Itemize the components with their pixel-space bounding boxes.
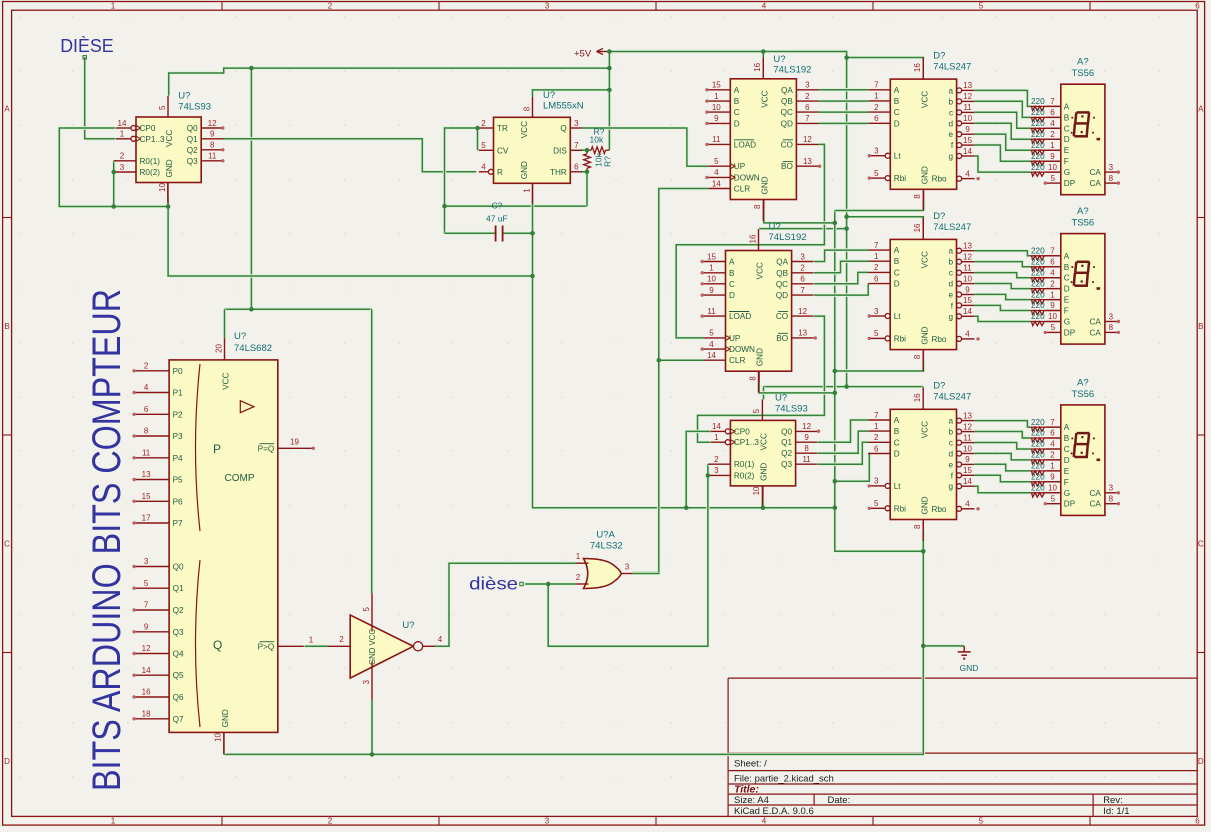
svg-text:DP: DP <box>1064 500 1076 509</box>
svg-text:220: 220 <box>1031 301 1045 310</box>
svg-text:CP0: CP0 <box>140 124 156 133</box>
svg-text:Size: A4: Size: A4 <box>734 795 769 806</box>
svg-text:8: 8 <box>913 524 922 529</box>
svg-text:GND VCC: GND VCC <box>368 629 377 665</box>
svg-text:3: 3 <box>545 1 550 10</box>
svg-text:2: 2 <box>120 152 125 161</box>
svg-text:19: 19 <box>290 437 299 446</box>
svg-text:9: 9 <box>144 622 149 631</box>
svg-text:220: 220 <box>1031 163 1045 172</box>
svg-text:220: 220 <box>1031 152 1045 161</box>
svg-text:GND: GND <box>760 463 769 481</box>
svg-text:e: e <box>949 130 954 139</box>
svg-text:6: 6 <box>800 275 805 284</box>
svg-text:7: 7 <box>874 241 879 250</box>
svg-text:11: 11 <box>707 307 716 316</box>
svg-text:14: 14 <box>707 351 716 360</box>
svg-text:GND: GND <box>960 663 979 673</box>
svg-text:5: 5 <box>752 408 761 413</box>
svg-text:Title:: Title: <box>734 783 759 795</box>
svg-text:8: 8 <box>804 444 809 453</box>
svg-text:15: 15 <box>963 296 972 305</box>
svg-text:B: B <box>1064 263 1070 272</box>
svg-text:9: 9 <box>714 114 719 123</box>
svg-text:CP1..3: CP1..3 <box>140 135 165 144</box>
svg-text:Q3: Q3 <box>173 628 184 637</box>
svg-text:C: C <box>4 540 10 549</box>
svg-text:D: D <box>1064 456 1070 465</box>
svg-text:C: C <box>1064 124 1070 133</box>
svg-text:14: 14 <box>963 147 972 156</box>
svg-text:Lt: Lt <box>894 152 902 161</box>
svg-text:3: 3 <box>120 163 125 172</box>
svg-text:10: 10 <box>214 732 223 741</box>
svg-text:4: 4 <box>1050 268 1055 277</box>
svg-text:c: c <box>949 269 953 278</box>
svg-text:R0(1): R0(1) <box>140 157 161 166</box>
svg-text:3: 3 <box>805 81 810 90</box>
svg-text:10: 10 <box>707 275 716 284</box>
svg-text:P: P <box>213 442 221 456</box>
svg-text:5: 5 <box>1051 323 1056 332</box>
svg-text:220: 220 <box>1031 141 1045 150</box>
svg-text:P6: P6 <box>173 497 183 506</box>
svg-text:VCC: VCC <box>222 373 231 390</box>
svg-text:U?: U? <box>234 331 246 342</box>
svg-text:C?: C? <box>492 201 503 211</box>
svg-text:220: 220 <box>1031 312 1045 321</box>
svg-text:QC: QC <box>781 108 793 117</box>
svg-text:5: 5 <box>1051 495 1056 504</box>
svg-text:D: D <box>894 280 900 289</box>
svg-text:c: c <box>949 439 953 448</box>
svg-text:4: 4 <box>709 340 714 349</box>
svg-text:10: 10 <box>963 274 972 283</box>
svg-text:10: 10 <box>1048 312 1057 321</box>
svg-text:18: 18 <box>142 709 151 718</box>
svg-text:2: 2 <box>328 1 333 10</box>
svg-text:Lt: Lt <box>894 312 902 321</box>
svg-text:14: 14 <box>963 477 972 486</box>
svg-text:3: 3 <box>874 147 879 156</box>
svg-text:TS56: TS56 <box>1071 68 1094 79</box>
svg-text:15: 15 <box>712 81 721 90</box>
svg-text:11: 11 <box>142 448 151 457</box>
svg-text:15: 15 <box>142 492 151 501</box>
svg-text:F: F <box>1064 157 1069 166</box>
svg-text:74LS192: 74LS192 <box>773 65 811 76</box>
svg-text:VCC: VCC <box>921 91 930 108</box>
svg-text:QA: QA <box>781 86 793 95</box>
svg-text:P=Q: P=Q <box>258 444 275 453</box>
svg-text:74LS247: 74LS247 <box>933 222 971 233</box>
svg-text:Rbo: Rbo <box>931 505 946 514</box>
svg-text:Rbo: Rbo <box>931 335 946 344</box>
svg-text:CO: CO <box>781 140 793 149</box>
svg-text:2: 2 <box>1050 279 1055 288</box>
svg-text:COMP: COMP <box>225 473 255 484</box>
svg-text:3: 3 <box>1109 312 1114 321</box>
svg-text:8: 8 <box>913 194 922 199</box>
svg-text:e: e <box>948 460 953 469</box>
svg-text:CA: CA <box>1090 489 1102 498</box>
svg-text:7: 7 <box>805 114 810 123</box>
svg-text:6: 6 <box>874 444 879 453</box>
svg-text:74LS682: 74LS682 <box>234 343 272 354</box>
svg-text:A?: A? <box>1077 377 1089 388</box>
svg-text:6: 6 <box>1050 108 1055 117</box>
svg-text:11: 11 <box>963 433 972 442</box>
svg-text:A: A <box>894 246 900 255</box>
svg-text:Q1: Q1 <box>781 438 792 447</box>
svg-text:1: 1 <box>522 188 531 193</box>
svg-text:4: 4 <box>1050 119 1055 128</box>
svg-text:D: D <box>4 757 10 766</box>
svg-text:7: 7 <box>800 286 805 295</box>
svg-text:CA: CA <box>1090 500 1102 509</box>
svg-text:20: 20 <box>214 343 223 352</box>
svg-text:E: E <box>1064 146 1070 155</box>
svg-text:1: 1 <box>714 92 719 101</box>
svg-text:220: 220 <box>1031 97 1045 106</box>
svg-text:9: 9 <box>965 125 970 134</box>
svg-text:U?A: U?A <box>596 530 615 541</box>
svg-text:9: 9 <box>1050 301 1055 310</box>
svg-text:3: 3 <box>574 119 579 128</box>
svg-text:4: 4 <box>965 330 970 339</box>
svg-text:Q7: Q7 <box>173 715 184 724</box>
svg-text:4: 4 <box>481 163 486 172</box>
svg-text:15: 15 <box>707 252 716 261</box>
svg-text:7: 7 <box>1050 418 1055 427</box>
svg-text:Q4: Q4 <box>173 650 184 659</box>
svg-text:QD: QD <box>776 291 788 300</box>
svg-text:GND: GND <box>520 161 529 179</box>
svg-text:12: 12 <box>798 307 807 316</box>
svg-text:R0(2): R0(2) <box>734 471 755 480</box>
svg-text:UP: UP <box>729 334 741 343</box>
svg-text:U?: U? <box>775 393 787 404</box>
svg-text:5: 5 <box>1051 174 1056 183</box>
svg-text:16: 16 <box>913 393 922 402</box>
svg-text:74LS192: 74LS192 <box>769 232 807 243</box>
svg-text:A: A <box>894 416 900 425</box>
svg-text:R0(1): R0(1) <box>734 460 755 469</box>
svg-text:1: 1 <box>111 816 116 825</box>
svg-text:D?: D? <box>933 51 945 62</box>
svg-text:14: 14 <box>712 422 721 431</box>
svg-text:c: c <box>949 108 953 117</box>
svg-text:QA: QA <box>776 258 788 267</box>
svg-text:1: 1 <box>874 92 879 101</box>
svg-text:CP1..3: CP1..3 <box>734 438 759 447</box>
svg-text:GND: GND <box>920 326 929 344</box>
svg-text:12: 12 <box>802 422 811 431</box>
svg-text:d: d <box>948 280 953 289</box>
svg-text:DOWN: DOWN <box>734 173 760 182</box>
svg-text:GND: GND <box>165 159 174 177</box>
svg-text:CO: CO <box>776 312 788 321</box>
svg-text:11: 11 <box>712 135 721 144</box>
svg-text:6: 6 <box>1050 257 1055 266</box>
svg-text:U?: U? <box>773 54 785 65</box>
svg-text:LOAD: LOAD <box>729 312 751 321</box>
svg-text:P2: P2 <box>173 410 183 419</box>
svg-text:CLR: CLR <box>734 185 750 194</box>
svg-text:6: 6 <box>874 274 879 283</box>
svg-text:F: F <box>1064 478 1069 487</box>
svg-text:E: E <box>1064 296 1070 305</box>
svg-text:9: 9 <box>965 285 970 294</box>
svg-text:2: 2 <box>874 433 879 442</box>
svg-text:e: e <box>948 291 953 300</box>
svg-text:d: d <box>949 119 954 128</box>
svg-text:4: 4 <box>1050 440 1055 449</box>
svg-text:F: F <box>1064 307 1069 316</box>
svg-text:12: 12 <box>963 253 972 262</box>
svg-text:12: 12 <box>208 119 217 128</box>
svg-text:8: 8 <box>1109 323 1114 332</box>
svg-text:47 uF: 47 uF <box>486 214 508 224</box>
svg-text:U?: U? <box>402 620 414 631</box>
svg-text:9: 9 <box>709 286 714 295</box>
svg-text:C: C <box>734 108 740 117</box>
svg-text:220: 220 <box>1031 119 1045 128</box>
svg-text:8: 8 <box>522 106 531 111</box>
svg-text:1: 1 <box>1050 462 1055 471</box>
svg-text:THR: THR <box>550 168 567 177</box>
svg-text:D: D <box>729 291 735 300</box>
svg-text:12: 12 <box>803 135 812 144</box>
svg-text:12: 12 <box>963 422 972 431</box>
svg-text:2: 2 <box>339 635 344 644</box>
svg-text:2: 2 <box>1050 451 1055 460</box>
svg-text:B: B <box>894 427 900 436</box>
svg-text:Rbi: Rbi <box>894 174 906 183</box>
svg-text:1: 1 <box>120 130 125 139</box>
svg-text:C: C <box>1064 274 1070 283</box>
svg-text:VCC: VCC <box>165 130 174 147</box>
svg-text:1: 1 <box>1050 141 1055 150</box>
svg-text:220: 220 <box>1031 462 1045 471</box>
svg-text:16: 16 <box>748 234 757 243</box>
svg-text:16: 16 <box>913 223 922 232</box>
svg-text:11: 11 <box>802 455 811 464</box>
svg-text:74LS247: 74LS247 <box>933 62 971 73</box>
svg-text:8: 8 <box>210 141 215 150</box>
svg-text:14: 14 <box>118 119 127 128</box>
svg-text:1: 1 <box>874 252 879 261</box>
svg-text:2: 2 <box>144 361 149 370</box>
svg-text:6: 6 <box>144 405 149 414</box>
svg-text:10k: 10k <box>590 135 604 145</box>
svg-text:B: B <box>894 97 900 106</box>
svg-text:GND: GND <box>921 166 930 184</box>
svg-text:B: B <box>1198 322 1203 331</box>
svg-text:Q3: Q3 <box>781 460 792 469</box>
svg-text:D: D <box>1198 757 1204 766</box>
svg-text:16: 16 <box>753 62 762 71</box>
svg-text:220: 220 <box>1031 257 1045 266</box>
svg-text:9: 9 <box>1050 473 1055 482</box>
svg-text:220: 220 <box>1031 473 1045 482</box>
svg-text:Id: 1/1: Id: 1/1 <box>1103 806 1129 817</box>
svg-text:220: 220 <box>1031 429 1045 438</box>
svg-text:A: A <box>1064 102 1070 111</box>
svg-text:8: 8 <box>753 204 762 209</box>
svg-text:CA: CA <box>1090 168 1102 177</box>
svg-text:DP: DP <box>1064 328 1076 337</box>
svg-text:7: 7 <box>574 141 579 150</box>
svg-text:13: 13 <box>963 242 972 251</box>
svg-text:VCC: VCC <box>761 90 770 107</box>
svg-text:220: 220 <box>1031 418 1045 427</box>
svg-text:E: E <box>1064 467 1070 476</box>
svg-text:6: 6 <box>1050 429 1055 438</box>
svg-text:+5V: +5V <box>574 48 592 59</box>
svg-text:GND: GND <box>761 176 770 194</box>
svg-text:TR: TR <box>497 124 508 133</box>
svg-text:1: 1 <box>1050 290 1055 299</box>
svg-text:10: 10 <box>752 486 761 495</box>
svg-text:P7: P7 <box>173 519 183 528</box>
svg-text:CA: CA <box>1090 179 1102 188</box>
svg-text:11: 11 <box>963 103 972 112</box>
svg-text:Q5: Q5 <box>173 671 184 680</box>
svg-text:R?: R? <box>603 156 613 167</box>
svg-text:1: 1 <box>111 1 116 10</box>
svg-text:C: C <box>1198 540 1204 549</box>
svg-text:6: 6 <box>1195 1 1200 10</box>
svg-text:2: 2 <box>1050 130 1055 139</box>
svg-text:74LS93: 74LS93 <box>775 404 808 415</box>
svg-text:QB: QB <box>781 97 793 106</box>
svg-text:d: d <box>948 450 953 459</box>
svg-text:14: 14 <box>963 307 972 316</box>
svg-text:LOAD: LOAD <box>734 140 756 149</box>
svg-text:G: G <box>1064 318 1070 327</box>
svg-text:C: C <box>894 268 900 277</box>
svg-text:KiCad E.D.A. 9.0.6: KiCad E.D.A. 9.0.6 <box>734 806 814 817</box>
svg-text:B: B <box>4 322 9 331</box>
svg-text:9: 9 <box>210 130 215 139</box>
svg-text:GND: GND <box>221 709 230 727</box>
svg-text:BO: BO <box>781 162 793 171</box>
svg-text:5: 5 <box>481 141 486 150</box>
svg-text:3: 3 <box>874 477 879 486</box>
svg-text:g: g <box>949 152 954 161</box>
svg-text:CP0: CP0 <box>734 427 750 436</box>
svg-text:8: 8 <box>1109 495 1114 504</box>
svg-text:16: 16 <box>913 63 922 72</box>
svg-text:1: 1 <box>309 635 314 644</box>
svg-text:U?: U? <box>178 90 190 101</box>
svg-text:7: 7 <box>874 81 879 90</box>
svg-text:QB: QB <box>776 269 788 278</box>
svg-text:220: 220 <box>1031 484 1045 493</box>
svg-text:8: 8 <box>1109 174 1114 183</box>
svg-text:4: 4 <box>762 816 767 825</box>
svg-text:B: B <box>729 269 735 278</box>
svg-text:3: 3 <box>545 816 550 825</box>
svg-text:220: 220 <box>1031 268 1045 277</box>
svg-text:UP: UP <box>734 162 746 171</box>
svg-text:VCC: VCC <box>756 262 765 279</box>
svg-text:Rbo: Rbo <box>932 175 947 184</box>
svg-text:U?: U? <box>769 221 781 232</box>
svg-text:Q0: Q0 <box>781 427 792 436</box>
svg-text:8: 8 <box>748 376 757 381</box>
svg-text:VCC: VCC <box>920 421 929 438</box>
svg-text:220: 220 <box>1031 451 1045 460</box>
svg-text:6: 6 <box>574 163 579 172</box>
svg-text:U?: U? <box>543 90 555 101</box>
svg-text:GND: GND <box>756 348 765 366</box>
svg-text:A: A <box>1064 423 1070 432</box>
svg-text:D: D <box>894 450 900 459</box>
svg-text:5: 5 <box>979 816 984 825</box>
svg-text:D?: D? <box>933 211 945 222</box>
svg-text:7: 7 <box>874 411 879 420</box>
svg-text:P5: P5 <box>173 476 183 485</box>
svg-text:2: 2 <box>714 455 719 464</box>
svg-text:Q1: Q1 <box>187 135 198 144</box>
svg-text:5: 5 <box>874 169 879 178</box>
svg-text:9: 9 <box>1050 152 1055 161</box>
svg-text:17: 17 <box>142 514 151 523</box>
svg-text:1: 1 <box>709 264 714 273</box>
svg-text:5: 5 <box>874 499 879 508</box>
svg-text:5: 5 <box>979 1 984 10</box>
svg-text:3: 3 <box>1109 163 1114 172</box>
svg-text:3: 3 <box>874 307 879 316</box>
svg-text:Q6: Q6 <box>173 693 184 702</box>
svg-text:b: b <box>948 428 953 437</box>
svg-text:Date:: Date: <box>828 795 851 806</box>
svg-text:R: R <box>497 168 503 177</box>
svg-text:C: C <box>894 438 900 447</box>
svg-text:GND: GND <box>920 496 929 514</box>
svg-text:CLR: CLR <box>729 356 745 365</box>
svg-text:VCC: VCC <box>520 121 529 138</box>
svg-text:A: A <box>894 86 900 95</box>
svg-text:A: A <box>4 105 10 114</box>
svg-text:3: 3 <box>800 252 805 261</box>
svg-text:QC: QC <box>776 280 788 289</box>
svg-text:4: 4 <box>438 635 443 644</box>
svg-text:10: 10 <box>158 183 167 192</box>
svg-text:g: g <box>948 482 953 491</box>
svg-text:4: 4 <box>965 500 970 509</box>
svg-text:220: 220 <box>1031 247 1045 256</box>
svg-text:G: G <box>1064 168 1070 177</box>
svg-text:5: 5 <box>144 579 149 588</box>
svg-text:A: A <box>729 258 735 267</box>
svg-text:8: 8 <box>144 427 149 436</box>
svg-text:16: 16 <box>142 688 151 697</box>
svg-text:DIÈSE: DIÈSE <box>60 36 113 56</box>
svg-text:P1: P1 <box>173 389 183 398</box>
svg-text:Q2: Q2 <box>173 606 184 615</box>
svg-text:13: 13 <box>963 81 972 90</box>
svg-text:9: 9 <box>965 455 970 464</box>
svg-text:5: 5 <box>874 329 879 338</box>
svg-text:TS56: TS56 <box>1071 218 1094 229</box>
svg-text:D: D <box>1064 135 1070 144</box>
svg-text:10: 10 <box>963 444 972 453</box>
svg-text:6: 6 <box>1195 816 1200 825</box>
svg-text:D: D <box>1064 285 1070 294</box>
